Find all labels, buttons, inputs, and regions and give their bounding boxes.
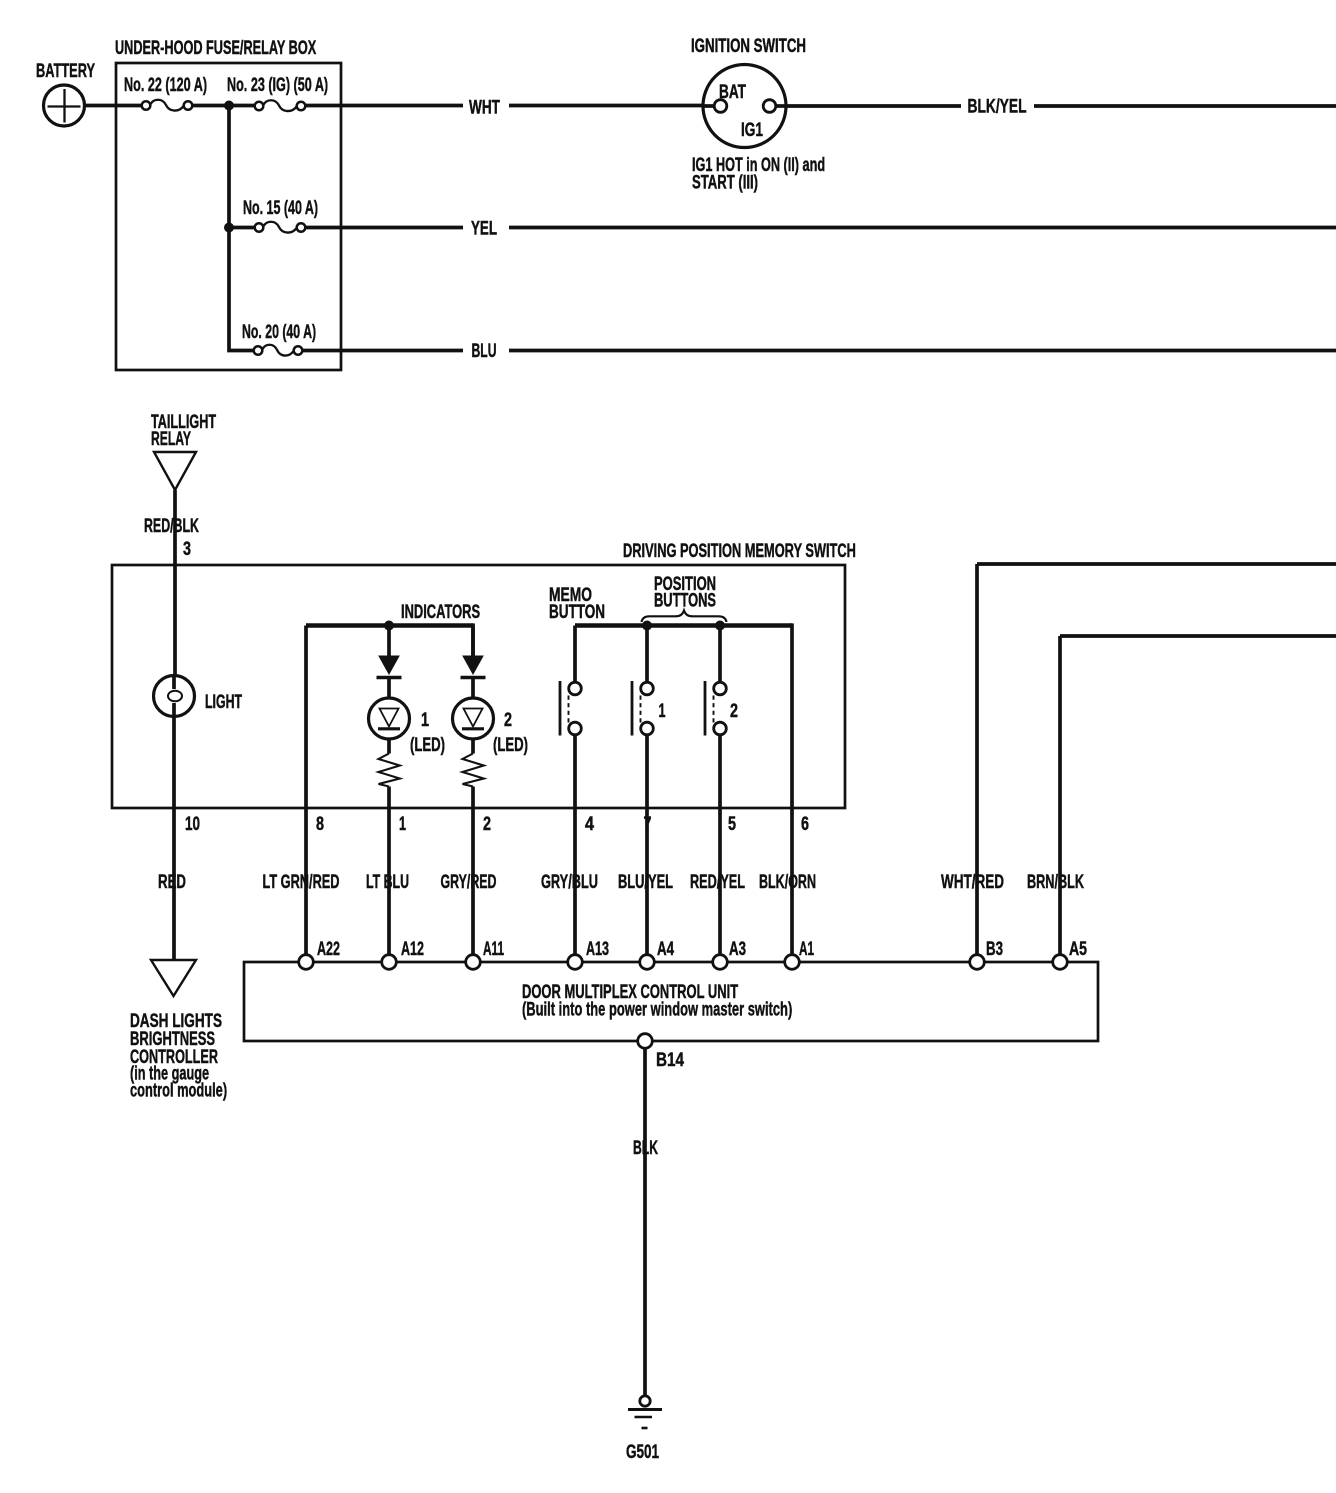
svg-text:BLK/YEL: BLK/YEL xyxy=(967,95,1026,117)
svg-text:A11: A11 xyxy=(483,939,504,959)
svg-text:No. 23 (IG) (50 A): No. 23 (IG) (50 A) xyxy=(227,75,328,96)
svg-text:RED: RED xyxy=(158,872,186,893)
svg-text:1: 1 xyxy=(659,700,666,721)
svg-text:6: 6 xyxy=(801,813,809,834)
svg-text:RED/YEL: RED/YEL xyxy=(690,872,745,893)
svg-text:5: 5 xyxy=(728,813,736,834)
svg-text:2: 2 xyxy=(730,700,738,721)
svg-text:WHT: WHT xyxy=(469,96,500,118)
svg-text:LT BLU: LT BLU xyxy=(366,871,409,892)
svg-text:BUTTONS: BUTTONS xyxy=(654,590,716,611)
svg-text:RELAY: RELAY xyxy=(151,430,191,450)
svg-text:BLU: BLU xyxy=(471,342,496,362)
svg-text:BLK/ORN: BLK/ORN xyxy=(759,871,816,892)
svg-text:A12: A12 xyxy=(401,938,424,959)
svg-text:(Built into the power window m: (Built into the power window master swit… xyxy=(522,999,792,1020)
svg-text:BAT: BAT xyxy=(719,81,746,103)
svg-text:DRIVING POSITION MEMORY SWITCH: DRIVING POSITION MEMORY SWITCH xyxy=(623,541,856,562)
svg-text:G501: G501 xyxy=(626,1442,659,1463)
svg-text:BLK: BLK xyxy=(633,1139,658,1159)
svg-text:RED/BLK: RED/BLK xyxy=(144,515,199,536)
svg-text:INDICATORS: INDICATORS xyxy=(401,602,480,623)
svg-text:2: 2 xyxy=(504,709,512,730)
svg-text:BUTTON: BUTTON xyxy=(549,602,605,623)
svg-text:UNDER-HOOD FUSE/RELAY BOX: UNDER-HOOD FUSE/RELAY BOX xyxy=(115,38,316,59)
svg-text:8: 8 xyxy=(316,813,324,834)
svg-text:(LED): (LED) xyxy=(493,735,528,756)
svg-text:No. 22 (120 A): No. 22 (120 A) xyxy=(124,75,207,96)
svg-text:3: 3 xyxy=(183,538,191,559)
svg-text:BRN/BLK: BRN/BLK xyxy=(1027,872,1084,893)
svg-text:LIGHT: LIGHT xyxy=(205,691,242,712)
svg-text:(LED): (LED) xyxy=(410,735,445,756)
svg-text:GRY/BLU: GRY/BLU xyxy=(541,872,598,893)
svg-text:LT GRN/RED: LT GRN/RED xyxy=(262,872,339,893)
svg-text:BLU/YEL: BLU/YEL xyxy=(618,872,673,893)
svg-text:4: 4 xyxy=(585,813,594,835)
svg-text:BATTERY: BATTERY xyxy=(36,61,95,82)
svg-text:WHT/RED: WHT/RED xyxy=(941,872,1004,893)
svg-text:7: 7 xyxy=(644,813,652,834)
svg-text:1: 1 xyxy=(421,709,429,730)
svg-text:YEL: YEL xyxy=(471,218,497,239)
svg-text:A1: A1 xyxy=(799,939,814,959)
svg-text:START (III): START (III) xyxy=(692,172,758,193)
svg-text:No. 15 (40 A): No. 15 (40 A) xyxy=(243,197,318,218)
svg-text:B14: B14 xyxy=(656,1048,684,1070)
svg-text:IGNITION SWITCH: IGNITION SWITCH xyxy=(691,36,806,57)
svg-text:A3: A3 xyxy=(729,939,746,960)
svg-text:IG1: IG1 xyxy=(741,119,763,141)
svg-text:A4: A4 xyxy=(657,939,675,960)
svg-text:10: 10 xyxy=(185,814,200,835)
svg-text:A13: A13 xyxy=(586,938,609,959)
svg-text:A22: A22 xyxy=(317,938,340,959)
svg-text:1: 1 xyxy=(399,813,406,834)
svg-text:GRY/RED: GRY/RED xyxy=(440,871,496,892)
svg-text:B3: B3 xyxy=(986,939,1003,960)
svg-text:control module): control module) xyxy=(130,1080,227,1101)
svg-text:2: 2 xyxy=(483,813,491,834)
svg-text:No. 20 (40 A): No. 20 (40 A) xyxy=(242,323,316,343)
svg-text:A5: A5 xyxy=(1069,938,1087,960)
